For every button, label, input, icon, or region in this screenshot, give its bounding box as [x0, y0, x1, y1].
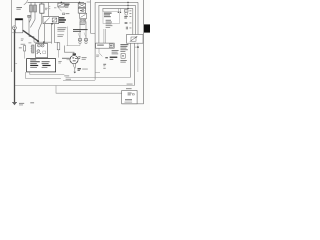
- wire relay to L3: [129, 43, 131, 77]
- label wire gauge: [66, 78, 71, 81]
- label near bottom edge: [125, 101, 133, 104]
- relay K1 body: [40, 4, 44, 13]
- wire bus row1 right: [95, 1, 138, 3]
- wire: [29, 36, 34, 38]
- switch right terminals: [78, 55, 80, 58]
- label key switch: [65, 4, 70, 5]
- node bus dots: [127, 2, 128, 3]
- wire: [44, 24, 46, 43]
- wire below F4: [57, 50, 59, 58]
- key switch S1 box: [58, 3, 64, 7]
- connector pair P2: [84, 39, 87, 41]
- wire tick: [135, 46, 138, 48]
- wire long vertical to L4: [94, 2, 96, 79]
- wire tick: [127, 2, 129, 8]
- wire below hour meter: [98, 48, 100, 53]
- page index black tab: [144, 24, 150, 32]
- wire: [81, 7, 83, 10]
- figure caption: [30, 102, 34, 103]
- wire L3: [66, 76, 131, 78]
- node junction A: [37, 40, 39, 42]
- PTO harness label box: [103, 12, 120, 24]
- RIO switch S3: [121, 54, 125, 59]
- module terminal dots: [37, 53, 38, 54]
- interlock module label box: [27, 59, 56, 72]
- hour meter symbol: [109, 44, 113, 48]
- wire tick on cable: [15, 63, 17, 65]
- ground ignition: [74, 72, 77, 74]
- label: [54, 6, 56, 9]
- connector CN1: [32, 45, 34, 53]
- RIO switch label rows: [120, 43, 128, 46]
- leader lines: [78, 33, 80, 38]
- wire double drop to hour meter: [103, 29, 105, 43]
- frame bottom border: [122, 103, 144, 105]
- gauge G3: [37, 50, 40, 53]
- wire: [53, 24, 55, 43]
- relay K2 arrow box: [78, 8, 85, 13]
- node bus junction: [79, 2, 81, 4]
- label 1A: [19, 46, 22, 49]
- wire relay short: [137, 43, 139, 72]
- label wire id: [28, 41, 31, 44]
- wire junction link: [34, 41, 52, 43]
- label: [96, 54, 99, 57]
- label ground: [78, 68, 81, 69]
- wire: [51, 24, 53, 44]
- wire: [82, 12, 84, 14]
- capacitor C1: [125, 27, 127, 30]
- wire switch bottom Y: [73, 64, 75, 69]
- node solenoid output: [51, 23, 53, 25]
- battery positive plate bar: [15, 18, 22, 20]
- label wire gauge: [45, 7, 48, 10]
- gauge G1: [38, 44, 41, 47]
- label above L5: [127, 83, 133, 86]
- wire bus B+ top left: [28, 1, 85, 3]
- label above F3: [21, 43, 26, 46]
- fuse F4: [57, 43, 60, 50]
- wire: [12, 32, 15, 34]
- wire: [79, 22, 81, 39]
- small labels lower: [103, 64, 106, 65]
- connector pins: [80, 19, 82, 21]
- ignition coil cluster: [124, 10, 128, 13]
- wire drop to fuse F1: [30, 2, 32, 5]
- frame right border: [142, 0, 144, 104]
- wire vertical right of center: [90, 0, 92, 33]
- instrument module M1: [36, 44, 48, 58]
- label below pins: [80, 22, 87, 25]
- wire with terminal ticks: [48, 2, 50, 16]
- fuse F2: [34, 5, 37, 12]
- label: [66, 12, 70, 15]
- node junction B: [43, 41, 45, 43]
- hour meter box: [96, 43, 115, 48]
- label ground: [19, 102, 24, 105]
- indicator window: [43, 51, 46, 54]
- wire: [79, 44, 81, 46]
- label rows col1: [30, 59, 36, 60]
- AC drive plug label: [112, 49, 119, 52]
- wire battery positive cable (thick diagonal): [23, 30, 39, 41]
- wire relay to L5: [134, 43, 136, 85]
- label right of box: [58, 60, 61, 63]
- spark plug symbol: [125, 22, 128, 24]
- label 12V bold: [110, 57, 118, 58]
- label solenoid (bold rows): [59, 17, 65, 18]
- label CB tray ground rows: [106, 19, 111, 22]
- connector X-box: [78, 3, 85, 7]
- wire: [85, 22, 87, 39]
- labels inside: [128, 92, 132, 95]
- relay K3 box: [80, 13, 87, 18]
- starter solenoid box with diode: [43, 17, 59, 24]
- fuse F3: [24, 46, 26, 51]
- partition wire: [67, 27, 69, 47]
- label above switch: [62, 58, 70, 59]
- label wire id: [21, 38, 24, 41]
- wire turn-down 1: [137, 2, 139, 34]
- wire from F2 down: [34, 12, 36, 20]
- PTO clutch relay box: [127, 35, 144, 44]
- wire: [28, 17, 30, 36]
- ignition switch S2: [70, 56, 78, 64]
- wire L4: [63, 79, 95, 81]
- fuel/bottom-right box: [122, 91, 137, 104]
- gauge G2: [41, 44, 44, 47]
- wire F3 leads: [24, 51, 26, 59]
- label rows col2: [42, 61, 50, 62]
- wire drops on PTO box top: [117, 8, 119, 12]
- wire drop to relay K1: [41, 2, 43, 4]
- label MX5 engine wiring harness: [73, 29, 88, 30]
- wire turn-down 3: [132, 8, 134, 34]
- diode square inside: [52, 18, 57, 22]
- label tiny: [87, 1, 91, 4]
- wire diagonal below switch: [58, 8, 61, 12]
- wire bus row3 right: [103, 8, 133, 11]
- node bus junction: [61, 2, 63, 4]
- wire tick left of ignition switch: [67, 59, 70, 61]
- wire L6: [56, 86, 122, 94]
- wire drop to fuse F2: [34, 2, 36, 5]
- ground RF shielded: [12, 101, 17, 103]
- connector gray square: [28, 15, 31, 17]
- label switch terminals: [82, 56, 87, 59]
- switch top terminal: [73, 53, 76, 55]
- connector pair P1: [78, 39, 81, 41]
- connector J2: [63, 13, 65, 15]
- battery BT1: [15, 19, 23, 33]
- fuse F1: [30, 5, 33, 12]
- battery terminal circle-plus: [13, 26, 17, 30]
- wire: [33, 37, 35, 43]
- wire: [91, 32, 96, 34]
- harness boundary corner inner: [30, 72, 65, 75]
- wire battery negative cable (thick): [14, 30, 16, 103]
- wire from F1 down: [30, 12, 32, 19]
- wire arc top-left: [24, 0, 28, 5]
- label above box: [126, 87, 132, 90]
- wire L5 long: [15, 85, 135, 87]
- frame left border: [11, 0, 13, 72]
- wire bus row2 right: [99, 5, 136, 43]
- wire stub: [95, 71, 100, 73]
- connector mark: [105, 57, 108, 58]
- wire turn-down 2: [135, 5, 137, 34]
- label Fusible Link: [16, 6, 22, 9]
- wire: [79, 1, 81, 4]
- wire from K1 down: [41, 13, 43, 22]
- wire to ignition switch: [64, 46, 74, 54]
- node dot: [137, 46, 139, 48]
- harness boundary corner outer: [26, 72, 61, 79]
- label harness text: [57, 26, 66, 29]
- label wire gauge: [64, 74, 69, 77]
- pin dashes: [129, 10, 131, 13]
- label below: [120, 59, 126, 62]
